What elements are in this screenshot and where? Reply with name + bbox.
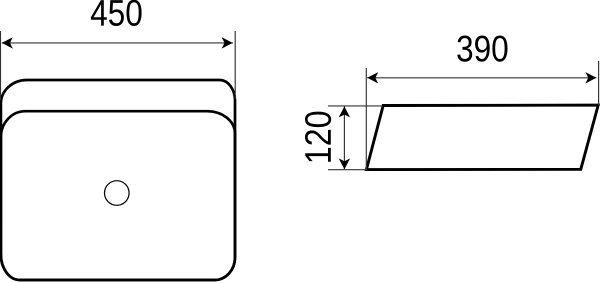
extension line bottom (120) xyxy=(328,169,367,171)
dimension text 390 xyxy=(457,36,507,62)
arrow right (450) xyxy=(222,37,233,48)
dimension text 120 xyxy=(305,112,331,162)
arrow down (120) xyxy=(339,158,350,169)
extension line left (390) xyxy=(365,68,367,170)
arrow right (390) xyxy=(585,72,596,83)
basin inner rim line (top view) xyxy=(1,111,235,280)
extension line right (390) xyxy=(598,61,600,105)
arrow left (390) xyxy=(367,72,378,83)
dimension line 390 xyxy=(367,77,596,79)
basin outer rim (top view) xyxy=(1,80,235,280)
extension line top (120) xyxy=(328,105,383,107)
extension line right (450) xyxy=(234,31,236,99)
basin body (side view) xyxy=(366,105,598,170)
dimension text 450 xyxy=(91,0,142,26)
arrow up (120) xyxy=(339,106,350,117)
arrow left (450) xyxy=(2,37,13,48)
drain hole circle xyxy=(105,181,130,206)
dimension line 450 xyxy=(2,42,233,44)
dimension line 120 xyxy=(343,106,345,169)
extension line left (450) xyxy=(0,31,2,100)
